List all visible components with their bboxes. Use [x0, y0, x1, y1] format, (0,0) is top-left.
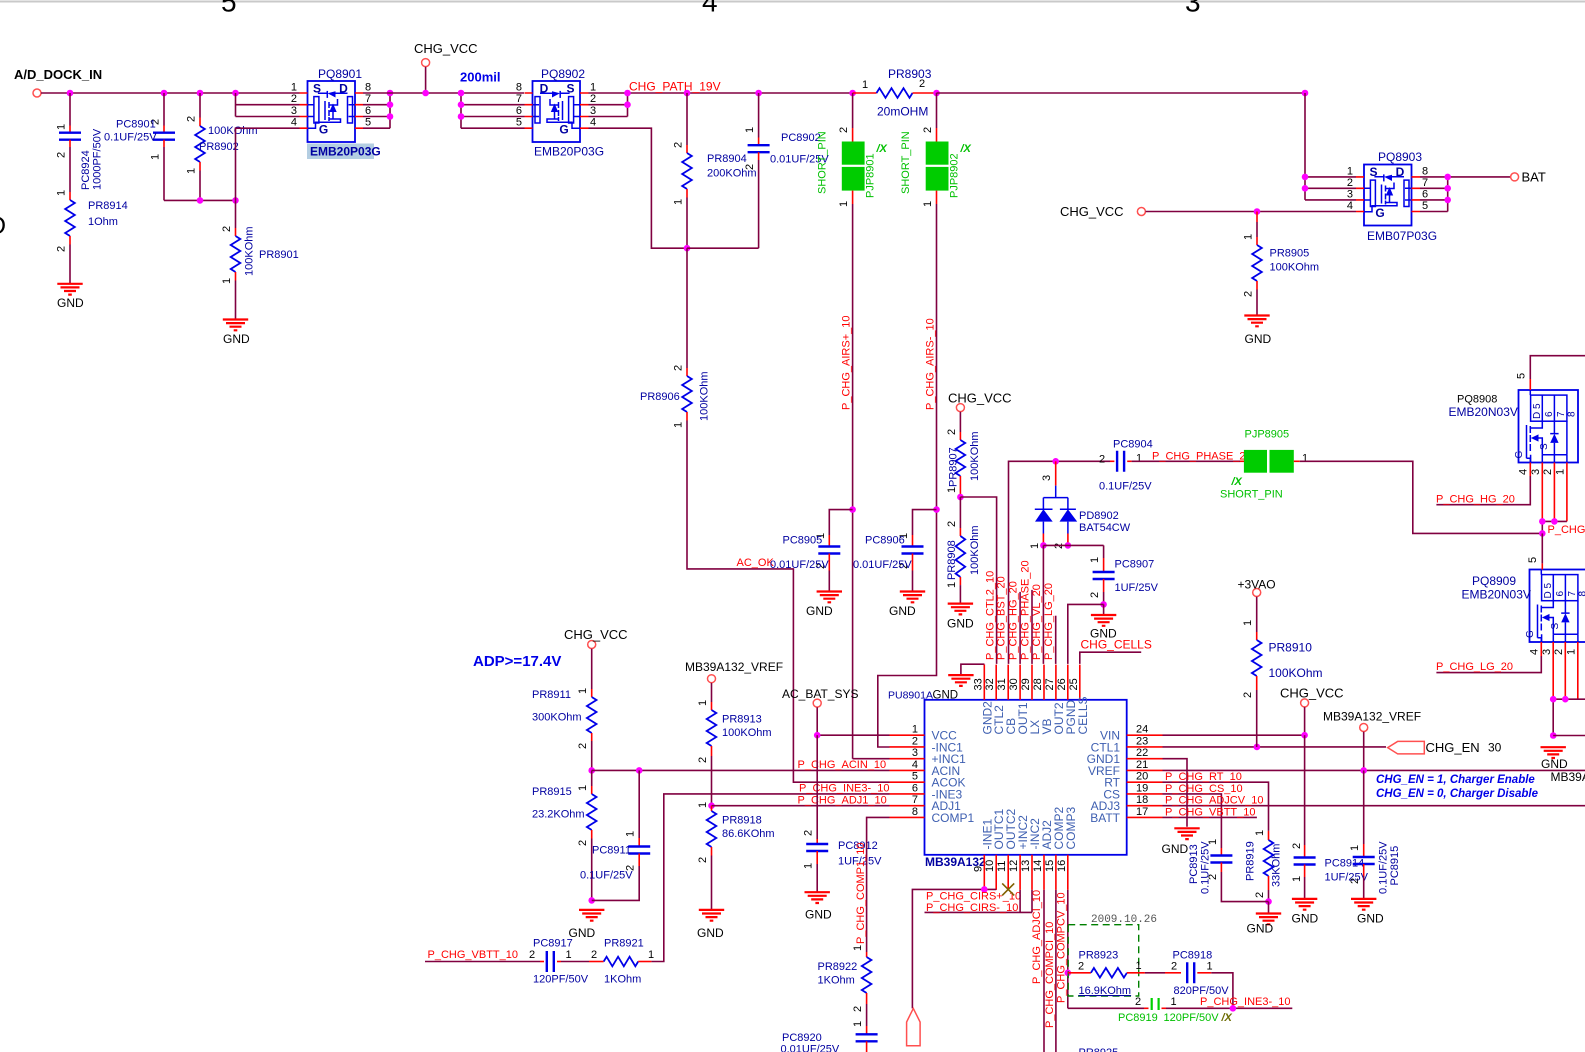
ground (PC8906)	[900, 592, 925, 603]
svg-text:1: 1	[56, 124, 68, 130]
svg-text:EMB20N03V: EMB20N03V	[1449, 405, 1518, 419]
ground (PR8905)	[1244, 316, 1269, 327]
wire PQ8901 left pins 2,3 tie	[236, 93, 300, 117]
svg-text:13: 13	[1020, 860, 1032, 872]
junction rail/PR8901	[232, 197, 239, 204]
wire PR8923 to PC8918	[1145, 972, 1165, 974]
svg-text:1: 1	[673, 199, 685, 205]
svg-text:GND: GND	[1292, 912, 1319, 926]
svg-text:G: G	[319, 123, 328, 137]
svg-text:12: 12	[1008, 860, 1020, 872]
wire CB/BST: IC pin31 to PC8904	[1009, 461, 1111, 664]
svg-text:GND: GND	[1245, 332, 1272, 346]
junction bus/PR8904	[684, 90, 691, 97]
svg-text:29: 29	[1020, 678, 1032, 690]
svg-text:PR8902: PR8902	[199, 141, 239, 153]
svg-text:100KOhm: 100KOhm	[969, 525, 981, 575]
capacitor PC8917 120PF/50V	[540, 961, 544, 963]
svg-text:1: 1	[577, 688, 589, 694]
svg-text:/X: /X	[960, 143, 972, 155]
junction bus/PC8924	[67, 90, 74, 97]
capacitor PC8906 0.01UF/25V	[913, 510, 937, 535]
node CHG_VCC off-page (PR8911)	[588, 641, 596, 649]
resistor PR8919 33KOhm	[1268, 831, 1270, 840]
junction PR8915/PC8911 rail	[588, 897, 595, 904]
transistor PQ8902 EMB20P03G dual P-FET	[533, 81, 581, 142]
svg-text:33: 33	[972, 678, 984, 690]
svg-text:4: 4	[590, 117, 596, 129]
svg-text:CHG_CELLS: CHG_CELLS	[1081, 638, 1152, 652]
svg-text:0.1UF/25V: 0.1UF/25V	[1200, 841, 1212, 894]
svg-text:2: 2	[1291, 843, 1303, 849]
resistor PR8913 100KOhm	[711, 683, 713, 702]
ground (PR8901)	[223, 320, 248, 331]
svg-text:5: 5	[1422, 200, 1428, 212]
ground (PC8905)	[817, 592, 842, 603]
wire CIRS- net: IC pins 12,13	[925, 890, 1033, 913]
svg-text:300KOhm: 300KOhm	[532, 712, 582, 724]
svg-text:20: 20	[1136, 771, 1148, 783]
svg-text:PR8903: PR8903	[888, 67, 932, 81]
svg-text:ADP>=17.4V: ADP>=17.4V	[473, 653, 561, 670]
wire PHASE: PC8904 to PJP8905	[1132, 460, 1240, 462]
svg-text:4: 4	[1529, 649, 1541, 655]
junction PJP8902 col / PC8906	[933, 506, 940, 513]
svg-text:PC8913: PC8913	[1188, 844, 1200, 884]
svg-text:P_CHG_HG_20: P_CHG_HG_20	[1007, 581, 1019, 660]
resistor PR8907 100KOhm	[959, 412, 961, 432]
svg-text:1KOhm: 1KOhm	[604, 974, 641, 986]
svg-text:2: 2	[697, 857, 709, 863]
svg-text:2: 2	[744, 164, 756, 170]
svg-text:2: 2	[852, 1006, 864, 1012]
svg-text:2: 2	[1242, 692, 1254, 698]
svg-text:P_CHG_INE3-_10: P_CHG_INE3-_10	[1200, 996, 1291, 1008]
svg-text:2: 2	[838, 127, 850, 133]
svg-text:28: 28	[1032, 678, 1044, 690]
PQ8908 gate pin4 to P_CHG_HG_20	[1529, 463, 1531, 477]
svg-text:2: 2	[529, 949, 535, 961]
svg-text:0.1UF/25V: 0.1UF/25V	[580, 870, 633, 882]
svg-text:100KOhm: 100KOhm	[1270, 262, 1320, 274]
wire divider junction to IC pin32 CTL2	[960, 497, 996, 664]
svg-text:PQ8903: PQ8903	[1378, 150, 1422, 164]
svg-text:5: 5	[1516, 373, 1528, 379]
svg-text:7: 7	[1422, 177, 1428, 189]
svg-text:4: 4	[291, 117, 297, 129]
svg-text:EMB07P03G: EMB07P03G	[1367, 229, 1437, 243]
svg-text:120PF/50V: 120PF/50V	[1164, 1012, 1220, 1024]
capacitor PC8911 0.1UF/25V	[638, 770, 640, 833]
svg-text:PC8906: PC8906	[865, 535, 905, 547]
junction PD8902 pin1/VB net	[1040, 542, 1047, 549]
wire bus drop to PQ8903 pins 1-3	[1305, 93, 1356, 200]
svg-text:P_CHG_CIRS-_10: P_CHG_CIRS-_10	[926, 902, 1018, 914]
svg-text:16.9KOhm: 16.9KOhm	[1079, 985, 1132, 997]
svg-text:P_CHG_COMPCV_10: P_CHG_COMPCV_10	[1056, 892, 1068, 1003]
svg-text:24: 24	[1136, 724, 1148, 736]
svg-text:EMB20N03V: EMB20N03V	[1462, 588, 1531, 602]
svg-text:CHG_VCC: CHG_VCC	[1060, 204, 1124, 219]
svg-text:P_CHG_COMP1_10: P_CHG_COMP1_10	[855, 843, 867, 945]
svg-text:0.01UF/25V: 0.01UF/25V	[781, 1044, 840, 1052]
svg-text:PR8904: PR8904	[707, 153, 747, 165]
junction CIRS+/pin9	[981, 886, 988, 893]
wire ADJCV row: IC pin18 to right edge	[1163, 805, 1585, 807]
capacitor PC8924 1000PF/50V	[69, 93, 71, 126]
svg-text:25: 25	[1068, 678, 1080, 690]
svg-text:G: G	[1525, 630, 1536, 638]
svg-text:D: D	[0, 212, 6, 240]
svg-text:GND: GND	[57, 296, 84, 310]
wire ADJ1 row to IC pin7	[712, 805, 890, 807]
svg-text:20mOHM: 20mOHM	[877, 105, 928, 119]
svg-text:2: 2	[1089, 592, 1101, 598]
wire PQ8901 right pins tie	[363, 93, 390, 128]
svg-text:G: G	[1375, 206, 1384, 220]
ground (PC8912)	[805, 892, 830, 903]
svg-text:6: 6	[1555, 591, 1566, 597]
wire VB net: diodes to PC8907 and IC pin28	[1043, 545, 1103, 664]
svg-text:1: 1	[862, 79, 868, 91]
svg-text:18: 18	[1136, 794, 1148, 806]
svg-text:P_CHG_ADJCI_10: P_CHG_ADJCI_10	[1031, 890, 1043, 984]
svg-text:GND: GND	[1162, 842, 1189, 856]
wire ADJCI column: IC pin14 down	[1043, 890, 1045, 1052]
wire P_CHG_HG_20 stub (IC pin30)	[1019, 592, 1021, 664]
svg-text:BAT: BAT	[1522, 170, 1546, 185]
svg-text:7: 7	[1567, 591, 1578, 597]
svg-text:+3VAO: +3VAO	[1238, 578, 1276, 592]
svg-text:1: 1	[838, 201, 850, 207]
ground (PQ8909 sources)	[1541, 747, 1566, 758]
svg-text:BATT: BATT	[1090, 811, 1120, 825]
svg-text:1: 1	[912, 724, 918, 736]
svg-text:PC8902: PC8902	[781, 132, 821, 144]
svg-text:G: G	[1514, 451, 1525, 459]
svg-text:2: 2	[673, 142, 685, 148]
svg-text:2: 2	[803, 830, 815, 836]
svg-text:PR8925: PR8925	[1079, 1047, 1119, 1052]
svg-text:/X: /X	[1231, 476, 1243, 488]
svg-text:5: 5	[365, 117, 371, 129]
svg-text:1KOhm: 1KOhm	[818, 975, 855, 987]
svg-text:27: 27	[1044, 678, 1056, 690]
junction VREF/MB39A132_VREF	[1360, 767, 1367, 774]
svg-text:PR8915: PR8915	[532, 786, 572, 798]
node CHG_VCC off-page (VIN)	[1301, 699, 1309, 707]
svg-text:P_CHG_ADJ1_10: P_CHG_ADJ1_10	[798, 794, 887, 806]
svg-text:PC8907: PC8907	[1115, 559, 1155, 571]
svg-text:PR8905: PR8905	[1270, 248, 1310, 260]
svg-text:/X: /X	[1221, 1012, 1233, 1024]
svg-text:2: 2	[590, 93, 596, 105]
svg-text:1: 1	[221, 278, 233, 284]
wire INE3- lower row with PC8919	[1068, 1007, 1144, 1009]
svg-text:2: 2	[56, 246, 68, 252]
svg-text:/X: /X	[876, 143, 888, 155]
svg-text:PC8901: PC8901	[116, 119, 156, 131]
wire RT row: IC pin20 to PR8919	[1163, 782, 1269, 831]
svg-text:SHORT_PIN: SHORT_PIN	[1220, 489, 1283, 501]
svg-text:P_CHG_CIRS+_10: P_CHG_CIRS+_10	[926, 891, 1021, 903]
svg-text:2: 2	[1553, 649, 1565, 655]
svg-text:0.1UF/25V: 0.1UF/25V	[1099, 481, 1152, 493]
svg-text:1: 1	[697, 802, 709, 808]
resistor PR8910 100KOhm	[1256, 597, 1258, 632]
wire CHG_VCC drop	[425, 67, 427, 93]
svg-text:26: 26	[1056, 678, 1068, 690]
svg-text:SHORT_PIN: SHORT_PIN	[817, 131, 829, 194]
svg-text:0.01UF/25V: 0.01UF/25V	[853, 559, 912, 571]
capacitor PC8920 0.01UF/25V	[866, 1004, 868, 1020]
svg-text:S: S	[1539, 443, 1550, 450]
svg-text:P_CHG_VBTT_10: P_CHG_VBTT_10	[428, 949, 518, 961]
svg-text:23.2KOhm: 23.2KOhm	[532, 809, 585, 821]
svg-text:BAT54CW: BAT54CW	[1079, 522, 1131, 534]
junction BST/PD8902	[1052, 458, 1059, 465]
svg-text:P_CHG_ADJCV_10: P_CHG_ADJCV_10	[1165, 795, 1263, 807]
svg-text:P_CHG_PHASE_20: P_CHG_PHASE_20	[1020, 560, 1032, 660]
resistor PR8904 200KOhm	[686, 93, 688, 145]
svg-text:2: 2	[1542, 469, 1554, 475]
wire AC_BAT_SYS to IC pin1 VCC	[817, 707, 889, 735]
wire bus PQ8902 pin1 onward (CHG_PATH_19V)	[589, 92, 853, 94]
svg-text:2: 2	[1099, 454, 1105, 466]
wire PQ8902 right pins 2,3 tie	[589, 93, 628, 117]
svg-text:PC8911: PC8911	[592, 845, 631, 857]
svg-text:P_CHG_HG_20: P_CHG_HG_20	[1436, 493, 1515, 505]
svg-text:COMP3: COMP3	[1064, 807, 1078, 850]
svg-text:8: 8	[1422, 165, 1428, 177]
wire COMPCV column: IC pin16 down to PR8923	[1067, 890, 1069, 1008]
capacitor PC8919 120PF/50V (not stuffed /X, green)	[1144, 1007, 1149, 1009]
svg-text:5: 5	[516, 117, 522, 129]
svg-text:5: 5	[221, 0, 237, 18]
svg-text:PR8906: PR8906	[640, 391, 680, 403]
capacitor PC8918 820PF/50V	[1165, 972, 1181, 974]
svg-text:GND: GND	[889, 604, 916, 618]
wire P_CHG_VBTT_10 / PC8917 / PR8921 row	[425, 961, 540, 963]
capacitor PC8904 0.1UF/25V	[1110, 460, 1114, 462]
svg-text:PR8922: PR8922	[818, 961, 858, 973]
IC bottom pin stubs 9-16	[984, 855, 1068, 890]
transistor PQ8908 EMB20N03V N-FET	[1519, 390, 1579, 463]
resistor PR8902 100KOhm	[199, 93, 201, 118]
wire bottom rail PC8901/PR8902/PR8901	[164, 199, 236, 201]
svg-text:PJP8902: PJP8902	[949, 153, 961, 198]
wire COMPCI column: IC pin15 down	[1055, 890, 1057, 1052]
junction ACIN/divider	[588, 767, 595, 774]
wire PHASE to PQ8908/09 junction	[1300, 461, 1543, 533]
wire PJP8901 to IC pin3 (+INC1)	[853, 758, 890, 760]
junction bus corner to PQ8903	[1302, 90, 1309, 97]
resistor PR8901 100KOhm	[235, 200, 237, 228]
jumper PJP8901 SHORT_PIN (not stuffed /X)	[852, 93, 854, 128]
svg-text:D 5: D 5	[1532, 403, 1543, 419]
wire CHG_CELLS: IC pin25	[1080, 652, 1141, 664]
junction CTL1/PR8910	[1254, 744, 1261, 751]
svg-text:3: 3	[1041, 475, 1053, 481]
callout dashed box	[1068, 925, 1139, 996]
wire PC8919 to free end	[1166, 1007, 1292, 1009]
resistor PR8923 16.9KOhm	[1068, 972, 1073, 974]
svg-text:P_CHG_COMPCI_10: P_CHG_COMPCI_10	[1044, 922, 1056, 1028]
wire ACIN row: divider to IC pin4	[592, 769, 890, 771]
svg-text:17: 17	[1136, 806, 1148, 818]
svg-text:P_CHG_CS_10: P_CHG_CS_10	[1165, 783, 1243, 795]
svg-text:7: 7	[516, 93, 522, 105]
svg-text:2: 2	[946, 521, 958, 527]
capacitor PC8902 0.01UF/25V	[755, 90, 762, 97]
PQ8908 pin5 drain wire to top right	[1529, 379, 1531, 390]
svg-text:EMB20P03G: EMB20P03G	[310, 145, 381, 159]
wire PC8917 to PR8921	[561, 961, 589, 963]
svg-text:6: 6	[365, 105, 371, 117]
wire CS row: IC pin19 to PC8913	[1163, 794, 1222, 848]
svg-text:1: 1	[852, 945, 864, 951]
svg-text:PR8910: PR8910	[1269, 641, 1313, 655]
svg-text:2: 2	[673, 365, 685, 371]
svg-text:PR8918: PR8918	[722, 815, 762, 827]
svg-text:22: 22	[1136, 747, 1148, 759]
port flag (P_CHG_CIRS+)	[907, 1008, 921, 1045]
svg-text:10: 10	[984, 860, 996, 872]
ground (GND2)	[948, 675, 973, 686]
svg-text:1: 1	[1171, 996, 1177, 1008]
capacitor PC8907 1UF/25V	[1103, 545, 1105, 558]
svg-text:2: 2	[1171, 960, 1177, 972]
node MB39A132_VREF off-page	[1360, 724, 1368, 732]
svg-text:1UF/25V: 1UF/25V	[1325, 872, 1369, 884]
svg-text:1: 1	[673, 422, 685, 428]
svg-text:PC8924: PC8924	[80, 150, 92, 190]
svg-text:PC8918: PC8918	[1173, 950, 1213, 962]
svg-text:100KOhm: 100KOhm	[1269, 666, 1323, 680]
capacitor PC8901 0.1UF/25V	[163, 93, 165, 126]
svg-text:1: 1	[852, 1021, 864, 1027]
svg-text:GND: GND	[697, 926, 724, 940]
svg-text:P_CHG_PHASE_20: P_CHG_PHASE_20	[1152, 451, 1252, 463]
svg-text:7: 7	[912, 794, 918, 806]
node MB39A132_VREF off-page (PR8913)	[708, 675, 716, 683]
node CHG_VCC off-page (PQ8903 gate)	[1137, 208, 1145, 216]
resistor PR8918 86.6KOhm	[711, 806, 713, 811]
svg-text:4: 4	[702, 0, 718, 18]
wire VBTT row: IC pin17	[1163, 816, 1257, 818]
svg-text:1: 1	[648, 949, 654, 961]
junction bus/pin2-3 drop	[232, 90, 239, 97]
capacitor PC8915 0.1UF/25V	[1363, 770, 1365, 844]
junction ADJ1/PR8913	[708, 802, 715, 809]
svg-text:2: 2	[186, 116, 198, 122]
PQ8908 source pins 3,2,1 tie	[1542, 463, 1567, 522]
wire AC_OK net: PR8906 to IC pin5 ACOK	[687, 421, 890, 783]
svg-text:P_CHG_LG_20: P_CHG_LG_20	[1043, 583, 1055, 660]
wire CTL1 row: IC pin23 to CHG_EN	[1163, 746, 1387, 748]
svg-text:P_CHG_INE3-_10: P_CHG_INE3-_10	[799, 783, 890, 795]
resistor PR8914 1Ohm	[69, 192, 71, 200]
svg-text:100KOhm: 100KOhm	[722, 727, 772, 739]
junction PD8902 pin2	[1065, 542, 1072, 549]
svg-text:SHORT_PIN: SHORT_PIN	[900, 131, 912, 194]
svg-text:1: 1	[150, 154, 162, 160]
junction rail/PR8902	[197, 197, 204, 204]
svg-text:2: 2	[1078, 960, 1084, 972]
svg-text:8: 8	[1567, 411, 1578, 417]
svg-text:2: 2	[1347, 177, 1353, 189]
svg-text:1: 1	[803, 863, 815, 869]
svg-text:2: 2	[577, 840, 589, 846]
svg-text:0.1UF/25V: 0.1UF/25V	[1378, 841, 1390, 894]
svg-text:5: 5	[912, 771, 918, 783]
svg-text:P_CHG_VL_20: P_CHG_VL_20	[1031, 584, 1043, 660]
svg-text:MB39A132_VREF: MB39A132_VREF	[1323, 710, 1421, 724]
svg-text:PQ8902: PQ8902	[541, 67, 585, 81]
wire GND stub to right edge	[1553, 735, 1585, 737]
PQ8902 pin stubs	[525, 93, 589, 128]
junction ACIN/PC8911	[636, 767, 643, 774]
transistor PQ8901 EMB20P03G dual P-FET	[308, 81, 356, 142]
svg-text:PJP8901: PJP8901	[865, 153, 877, 198]
resistor PR8906 100KOhm	[686, 248, 688, 368]
svg-text:PR8908: PR8908	[946, 540, 958, 580]
svg-text:7: 7	[1556, 411, 1567, 417]
svg-text:MB39A132_VREF: MB39A132_VREF	[685, 660, 783, 674]
svg-text:1: 1	[625, 831, 637, 837]
svg-text:PR8921: PR8921	[604, 938, 644, 950]
svg-text:PR8913: PR8913	[722, 714, 762, 726]
svg-text:1: 1	[1207, 960, 1213, 972]
svg-text:D 5: D 5	[1543, 583, 1554, 599]
svg-text:AC_OK: AC_OK	[737, 557, 775, 569]
svg-text:100KOhm: 100KOhm	[244, 226, 256, 276]
svg-text:4: 4	[1518, 469, 1530, 475]
svg-text:1: 1	[1254, 830, 1266, 836]
svg-text:GND: GND	[947, 617, 974, 631]
svg-text:P_CHG_LG_20: P_CHG_LG_20	[1436, 661, 1513, 673]
svg-text:PC8915: PC8915	[1389, 846, 1401, 886]
svg-text:6: 6	[912, 782, 918, 794]
ground (PR8915/PC8911)	[579, 910, 604, 921]
ground (PR8919)	[1268, 902, 1270, 914]
diode PD8902 BAT54CW dual Schottky	[1055, 461, 1057, 485]
svg-text:2: 2	[697, 757, 709, 763]
ground (GND1)	[1174, 828, 1199, 839]
svg-text:2009.10.26: 2009.10.26	[1091, 914, 1157, 926]
svg-text:1: 1	[1136, 453, 1142, 465]
svg-text:7: 7	[365, 93, 371, 105]
junction VIN/CHG_VCC/PC8914	[1301, 732, 1308, 739]
svg-text:CHG_EN = 0, Charger Disable: CHG_EN = 0, Charger Disable	[1376, 788, 1539, 800]
svg-text:P_CHG_RT_10: P_CHG_RT_10	[1165, 771, 1242, 783]
svg-text:GND: GND	[223, 332, 250, 346]
svg-text:1: 1	[1243, 234, 1255, 240]
svg-text:0.01UF/25V: 0.01UF/25V	[770, 559, 829, 571]
node +3VAO off-page	[1253, 589, 1261, 597]
capacitor PC8905 0.01UF/25V	[829, 510, 852, 535]
svg-text:2: 2	[1254, 892, 1266, 898]
wire P_CHG_PHASE_20 stub (IC pin29)	[1031, 590, 1033, 664]
wire bus PQ8901 to PQ8902	[363, 92, 524, 94]
wire COMP1 column: IC pin8 to PR8922	[867, 817, 890, 952]
svg-text:1: 1	[744, 127, 756, 133]
svg-text:1: 1	[1349, 845, 1361, 851]
svg-text:33KOhm: 33KOhm	[1271, 844, 1283, 887]
svg-text:3: 3	[1541, 649, 1553, 655]
wire PQ8902 pin4 to bottom rail	[589, 128, 688, 248]
svg-text:3: 3	[291, 105, 297, 117]
